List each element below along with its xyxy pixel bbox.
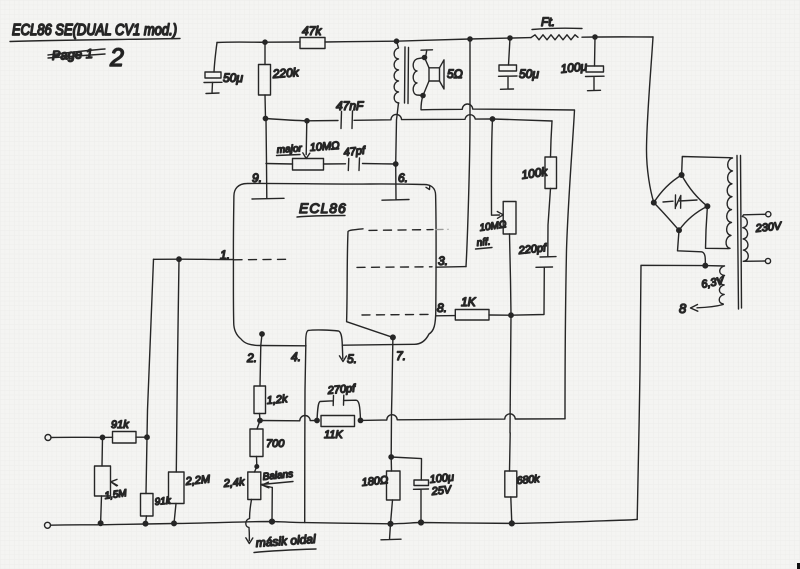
wire: heater winding bottom to arrow 8 bbox=[679, 301, 723, 316]
svg-text:1K: 1K bbox=[461, 295, 477, 309]
node: secondary top terminal bbox=[422, 55, 426, 59]
transformer T2: 6,3V heater winding bbox=[700, 266, 726, 304]
wire: pin 3 riser up to B+ rail bbox=[466, 39, 470, 267]
node: 180R / rail junction with ground symbol bbox=[381, 521, 401, 539]
wire: bridge plus (top) to HV winding top bbox=[682, 157, 730, 176]
svg-text:8.: 8. bbox=[437, 301, 447, 315]
resistor 1K (pentode g2 stopper) bbox=[455, 295, 489, 320]
svg-text:ECL86: ECL86 bbox=[299, 200, 347, 216]
terminal: 230V lower bbox=[765, 258, 770, 263]
title: page number scribble "Page 1" struck out, replaced by 2 bbox=[48, 44, 124, 72]
wire: NFB network wire from 1,2k junction to 11k (jump over heater wire) bbox=[260, 416, 317, 421]
svg-text:Ft.: Ft. bbox=[541, 15, 555, 29]
tube V1: label ECL86 underlined bbox=[297, 200, 347, 217]
wire: 680k vertical continues through NFB jump bbox=[509, 405, 511, 433]
node: junction on 47nF wire feeding right 10M pot bbox=[490, 117, 494, 121]
svg-text:50μ: 50μ bbox=[519, 67, 539, 81]
svg-text:25V: 25V bbox=[430, 484, 453, 498]
resistor 2,2M (grid leak) bbox=[169, 259, 212, 523]
wire: bridge minus (bottom) down and to DC- node bbox=[678, 230, 706, 265]
svg-text:9.: 9. bbox=[252, 171, 262, 185]
node: junction 47pf / pin6 vertical bbox=[394, 162, 398, 166]
wire: input to 91k bbox=[51, 436, 113, 438]
svg-text:ECL86 SE(DUAL CV1 mod.): ECL86 SE(DUAL CV1 mod.) bbox=[12, 22, 177, 39]
node: DC minus node bbox=[703, 263, 708, 268]
bridge rectifier: diode symbol inside bbox=[663, 195, 697, 209]
transformer T1: secondary winding bbox=[413, 58, 424, 96]
svg-text:91k: 91k bbox=[154, 496, 172, 508]
svg-text:100μ: 100μ bbox=[429, 471, 455, 485]
node: junction 50u cap / top rail bbox=[508, 36, 512, 40]
tube V1: pin 5 arrow and label bbox=[339, 345, 357, 366]
wire: pin 1 lead to input node bbox=[154, 258, 234, 260]
capacitor 100u electrolytic (B+ filter right) bbox=[560, 37, 604, 91]
terminal: 230V upper bbox=[766, 212, 771, 217]
transformer T1: output transformer primary winding bbox=[394, 41, 399, 103]
svg-text:2: 2 bbox=[109, 44, 124, 72]
svg-text:50μ: 50μ bbox=[223, 71, 243, 85]
transformer T2: 230V primary winding bbox=[743, 217, 749, 262]
svg-text:47k: 47k bbox=[302, 24, 322, 38]
potentiometer 2,4k Balans bbox=[222, 467, 294, 500]
svg-text:8: 8 bbox=[679, 301, 687, 316]
wire: 230V top terminal bbox=[743, 214, 766, 216]
tube V1: triode grid dashed line pin 1 bbox=[220, 248, 287, 262]
node: junction 100u cap / top rail bbox=[593, 35, 597, 39]
transformer T1: core lines bbox=[405, 47, 409, 104]
svg-text:7.: 7. bbox=[396, 349, 406, 363]
svg-text:5Ω: 5Ω bbox=[447, 67, 463, 81]
potentiometer 1,5M (input level) bbox=[95, 437, 129, 523]
node: grid node junction (91k / riser / 91k shunt) bbox=[145, 435, 149, 439]
wire: 91k to grid node bbox=[136, 436, 147, 438]
chassis bar above speaker secondary bbox=[421, 50, 433, 58]
wire: B+ top rail bbox=[217, 37, 653, 43]
svg-text:10MΩ: 10MΩ bbox=[309, 140, 340, 154]
node: junction 11k left bbox=[315, 418, 319, 422]
svg-text:91k: 91k bbox=[111, 419, 129, 431]
capacitor 100u 25V (cathode bypass) bbox=[391, 457, 454, 523]
svg-text:47pf: 47pf bbox=[343, 145, 366, 159]
wire: ground rail right end riser up to bridge minus bbox=[637, 265, 705, 519]
speaker LS1 (5 ohm) bbox=[423, 58, 463, 96]
node: 2,2M / rail junction bbox=[172, 521, 177, 526]
resistor 11K (feedback) bbox=[321, 416, 355, 442]
capacitor 220pf bbox=[517, 242, 556, 267]
capacitor 270pf (across 11K) bbox=[317, 383, 361, 421]
svg-text:700: 700 bbox=[266, 438, 285, 450]
bridge rectifier: diamond bbox=[654, 175, 708, 230]
resistor 1,2k (triode cathode) bbox=[254, 386, 288, 421]
node: junction 10M trimmer arrow on 47nF wire bbox=[305, 119, 309, 123]
svg-text:6.: 6. bbox=[398, 171, 408, 185]
node: junction pin7 / 180R / 100u bbox=[389, 455, 393, 459]
node: screen node junction (220k bottom / 47nF wire / pin9 drop) bbox=[263, 116, 267, 120]
wire: screen node to 47nF and onward to 100k drop (with jumps over pin6 and pin3 verticals) bbox=[266, 114, 553, 121]
resistor 180R (pentode cathode) bbox=[361, 457, 400, 524]
transformer T2: core lines bbox=[737, 156, 742, 310]
capacitor 47pf (parallel) bbox=[324, 145, 396, 171]
node: 100u / rail junction bbox=[419, 520, 424, 525]
capacitor 50u electrolytic (left) bbox=[204, 71, 243, 85]
tube V1: heater loop pins 4-5 bbox=[306, 330, 343, 346]
wire: 230V bottom terminal bbox=[743, 260, 765, 262]
node: junction 1,2k / 11k NFB network bbox=[258, 418, 262, 422]
tube V1: pin 2 node and lead down bbox=[246, 332, 264, 386]
svg-text:680k: 680k bbox=[516, 473, 540, 487]
tube V1: small tick at envelope top right corner bbox=[426, 186, 430, 190]
node: junction 220k / top rail bbox=[263, 40, 267, 44]
terminal: input lower (ground) bbox=[45, 522, 51, 528]
resistor 220k (screen feed) bbox=[259, 42, 301, 118]
wire: NFB from secondary bottom, right along y=110, down the long riser bbox=[421, 96, 575, 419]
tube V1: pin 8 dashed line and lead bbox=[362, 301, 455, 316]
resistor 91k (grid shunt, vertical) bbox=[141, 437, 173, 523]
svg-text:2.: 2. bbox=[246, 351, 257, 365]
wire: bridge AC right corner down to HV winding bottom bbox=[706, 206, 729, 248]
svg-text:47nF: 47nF bbox=[336, 99, 364, 113]
svg-text:1,2k: 1,2k bbox=[266, 393, 288, 407]
potentiometer 10M (nif) with arrow feed bbox=[476, 119, 517, 315]
node: 1,5M / rail junction bbox=[98, 521, 103, 526]
wire: grid node riser up to pin 1 corner bbox=[147, 259, 154, 437]
tube V1: pin 7 node and label bbox=[391, 335, 406, 363]
svg-text:220k: 220k bbox=[271, 65, 300, 81]
svg-text:100μ: 100μ bbox=[560, 59, 588, 76]
node: junction input / 1,5M pot bbox=[100, 435, 104, 439]
label: masik oldal (to other side) underlined bbox=[254, 532, 316, 553]
node: junction 11k right / NFB line bbox=[358, 418, 362, 422]
node: secondary bottom terminal bbox=[421, 93, 425, 97]
wire: NFB line from 11k right to riser (jumps over pin7 and 680k verticals) bbox=[361, 414, 566, 421]
tube V1: pentode top dashed line bbox=[369, 229, 433, 232]
node: wiper / ground rail junction bbox=[270, 519, 275, 524]
wire: rail left end drop to 50u cap bbox=[214, 43, 217, 73]
fuse Ft on B+ rail bbox=[531, 15, 582, 40]
svg-text:11K: 11K bbox=[324, 429, 343, 441]
node: 91k shunt / rail junction bbox=[143, 521, 148, 526]
capacitor 47nF (coupling) bbox=[336, 99, 364, 129]
tube V1: pin 3 dashed line and lead bbox=[357, 254, 466, 268]
tube V1 ECL86 envelope bbox=[233, 183, 436, 345]
wire: pin 4 heater down to ground rail (jump over NFB wire) bbox=[305, 346, 306, 523]
tube V1: pin 9 lead and top bar bbox=[252, 119, 284, 200]
resistor 680k (bleeder) bbox=[505, 315, 541, 523]
wire: 1k to pin8 node then right and up to 220pf bbox=[489, 268, 544, 316]
resistor 700 (pentode cathode upper) bbox=[250, 421, 285, 469]
bridge rectifier: corner nodes bbox=[652, 200, 657, 205]
wire: top rail right end down to bridge bbox=[647, 37, 654, 203]
title: ECL86 SE (DUAL CV1 mod.) underlined bbox=[10, 22, 180, 42]
svg-text:2,4k: 2,4k bbox=[222, 476, 245, 490]
tube V1: pentode inner box (left edge, top edge, diagonal to pin7) bbox=[347, 229, 393, 338]
node: input node on pin1 wire bbox=[177, 257, 181, 261]
svg-text:3.: 3. bbox=[438, 254, 448, 268]
terminal: input upper bbox=[45, 435, 51, 441]
trimmer 10M (major) with arrow from screen wire bbox=[266, 121, 340, 170]
wire: 2,4k bottom crossing rail with hook to other-side arrow bbox=[246, 500, 253, 544]
node: pin8 node junction (1k / 10M pot / 680k) bbox=[509, 313, 513, 317]
capacitor 50u electrolytic (B+ filter mid) bbox=[499, 38, 540, 89]
wire: pin 7 cathode down (jump drawn on NFB wire) bbox=[391, 337, 393, 457]
mark: bottom right corner blemish bbox=[797, 563, 800, 569]
tube V1: pin 6 lead from OPT primary with top bar bbox=[382, 103, 409, 200]
node: junction OPT primary / top rail bbox=[394, 39, 398, 43]
wire: ground rail across bottom bbox=[51, 519, 638, 525]
svg-text:4.: 4. bbox=[291, 350, 301, 364]
wire: Balans wiper down to ground rail bbox=[271, 488, 273, 522]
ground below left 50u cap bbox=[206, 83, 219, 94]
resistor 47k (anode load) bbox=[300, 24, 325, 49]
resistor 91k (grid series) bbox=[111, 419, 136, 443]
resistor 100k (screen dropper) bbox=[520, 121, 556, 257]
svg-text:5.: 5. bbox=[347, 352, 357, 366]
node: junction pin3 riser / top rail bbox=[468, 37, 472, 41]
transformer T2: HV secondary winding bbox=[726, 158, 732, 249]
svg-text:270pf: 270pf bbox=[326, 383, 356, 398]
node: 680k / rail junction bbox=[509, 521, 514, 526]
